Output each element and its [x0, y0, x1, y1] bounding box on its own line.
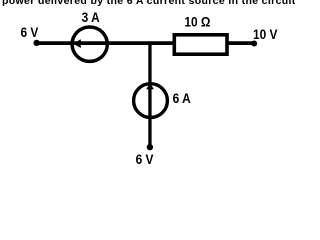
svg-text:6 V: 6 V [136, 151, 154, 167]
wire: vertical wire from junction down to bottom 6V node [148, 43, 151, 147]
clipped problem statement text line [2, 0, 302, 6]
node: left terminal 6V [33, 40, 39, 46]
svg-text:10 Ω: 10 Ω [184, 14, 210, 30]
resistor R1 10 ohm [174, 35, 227, 54]
svg-text:3 A: 3 A [82, 9, 101, 25]
svg-text:6 A: 6 A [173, 90, 192, 106]
node: bottom terminal 6V [147, 144, 153, 150]
current source I2 6A (circle with up arrow) [134, 83, 168, 118]
wire: horizontal top wire from 6V node to 10V node [37, 41, 255, 45]
svg-text:6 V: 6 V [21, 24, 39, 40]
current source I1 3A (circle with left arrow) [72, 27, 107, 61]
node: right terminal 10V [251, 41, 257, 47]
svg-text:10 V: 10 V [253, 26, 278, 42]
